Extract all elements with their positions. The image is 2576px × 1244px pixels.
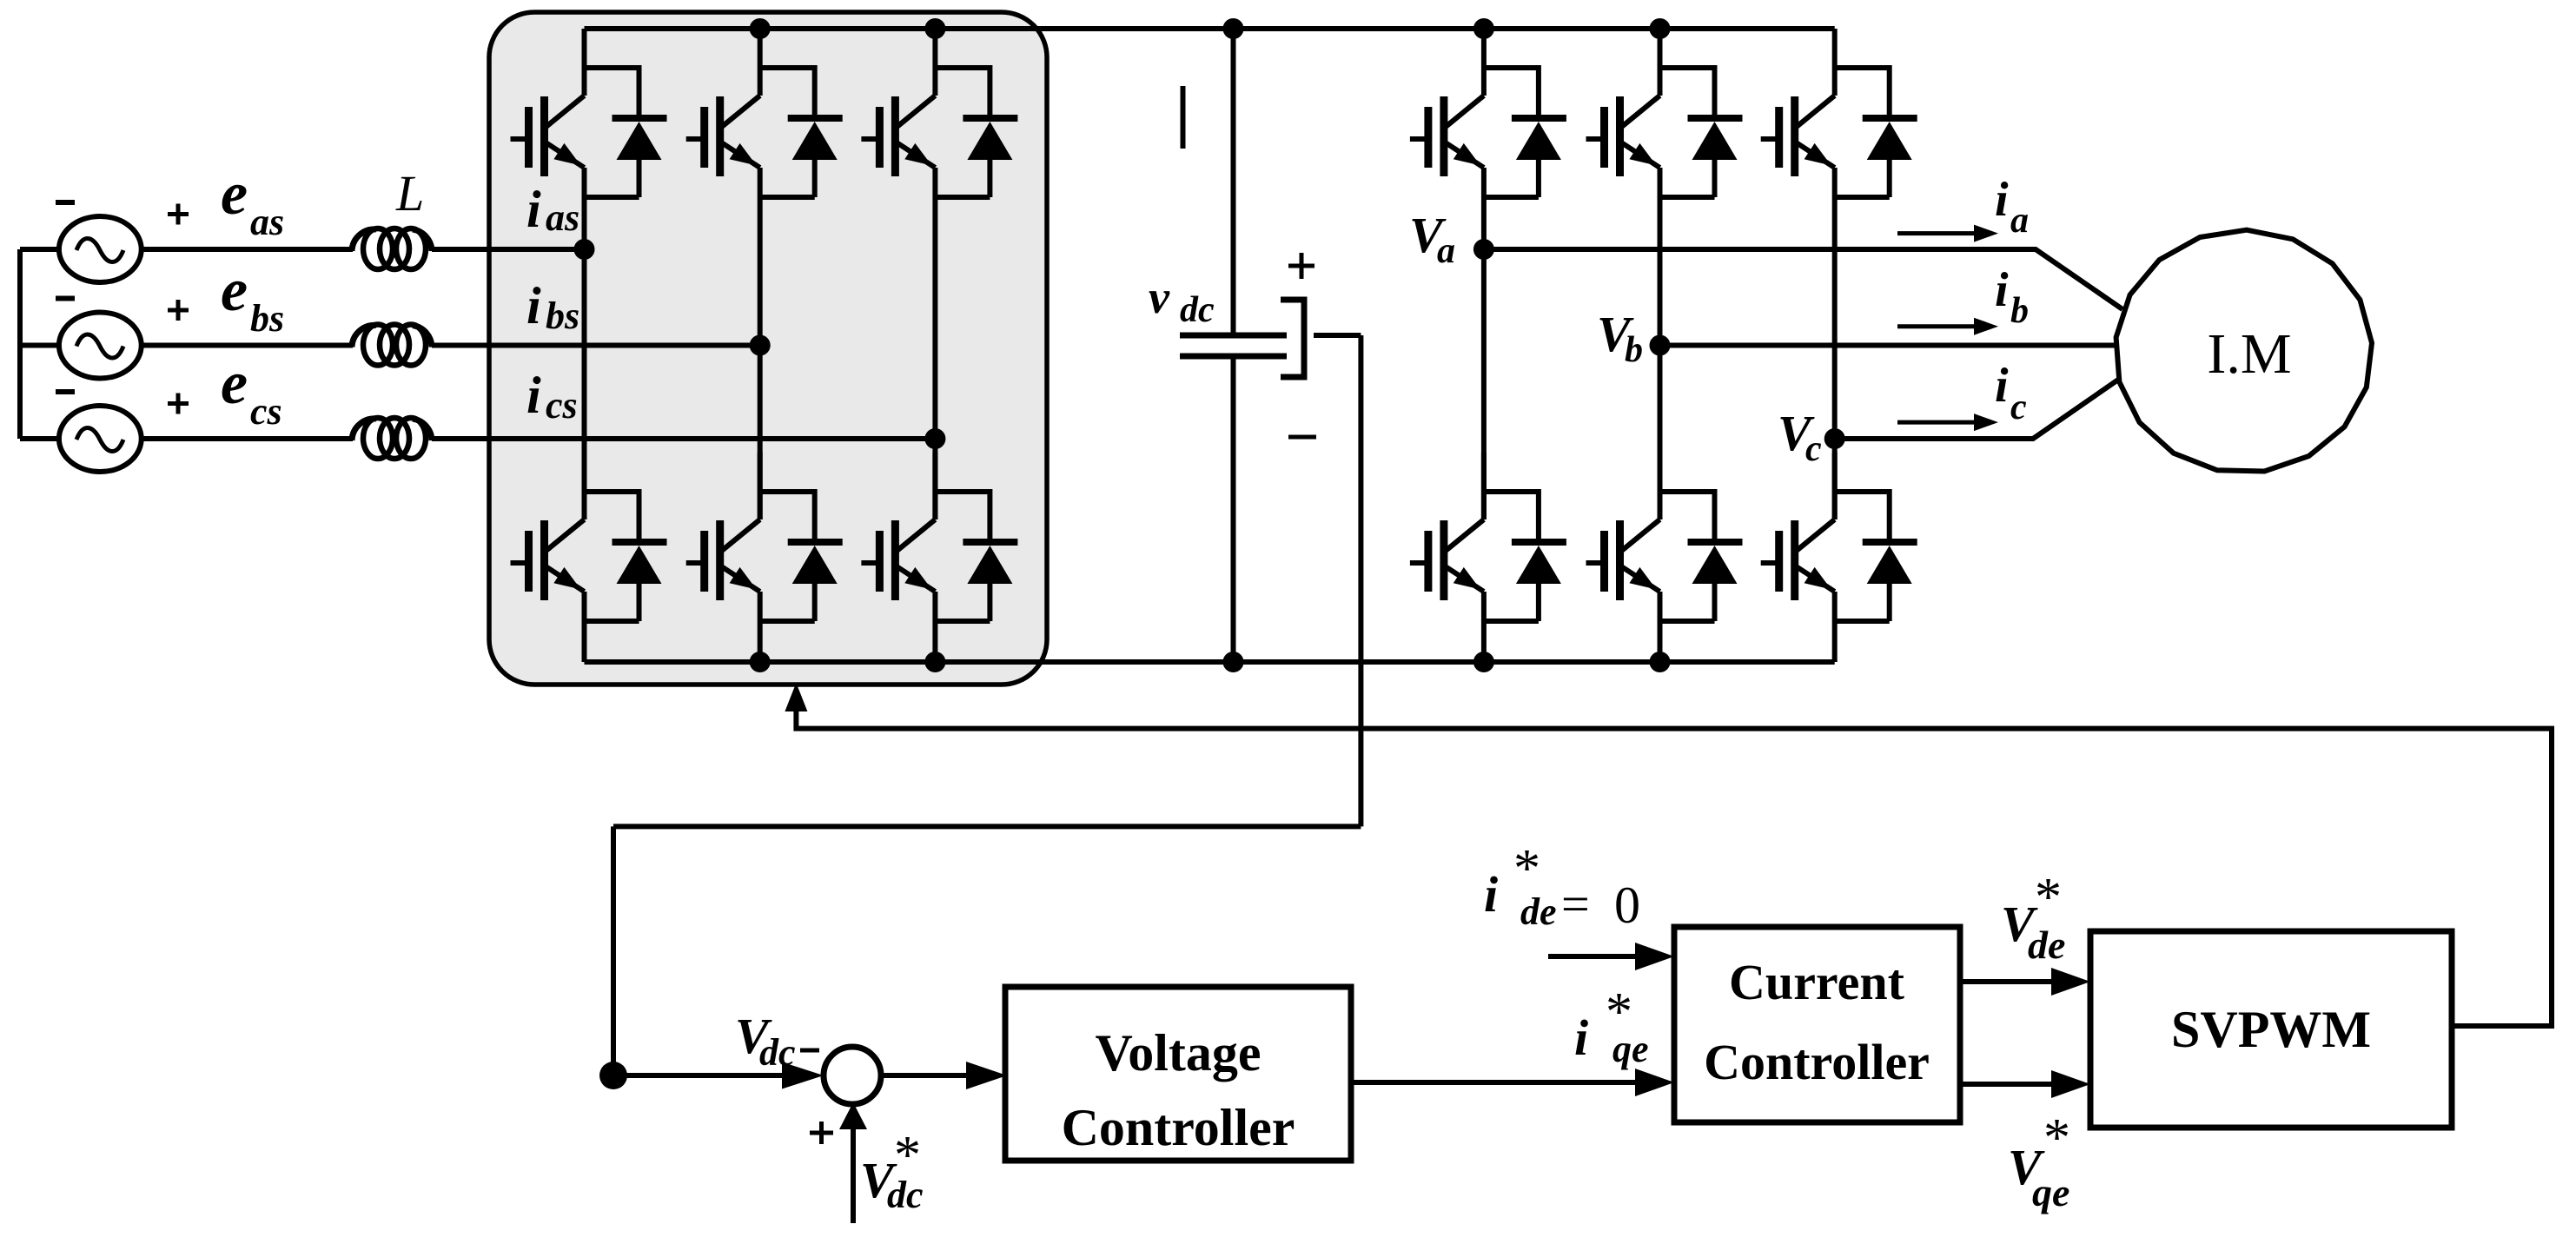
svg-text:=: = [1561,876,1590,932]
svg-text:a: a [1437,231,1455,271]
svg-text:i: i [526,181,541,238]
svg-text:0: 0 [1614,877,1640,934]
svg-text:i: i [526,277,541,334]
svg-text:*: * [2035,868,2062,927]
svg-text:as: as [546,196,579,239]
svg-text:*: * [1513,839,1540,898]
svg-text:v: v [1149,271,1170,323]
svg-text:b: b [1625,330,1643,370]
svg-text:i: i [1995,359,2009,413]
svg-text:cs: cs [250,390,282,433]
svg-text:SVPWM: SVPWM [2171,1001,2371,1058]
svg-text:de: de [1520,890,1557,933]
svg-text:as: as [250,201,284,243]
svg-text:bs: bs [546,294,579,337]
svg-text:dc: dc [1180,290,1215,330]
svg-text:dc: dc [759,1031,796,1074]
svg-text:Controller: Controller [1704,1034,1930,1090]
svg-text:i: i [1995,173,2009,227]
svg-text:cs: cs [546,384,578,427]
svg-text:a: a [2010,201,2029,241]
svg-text:de: de [2028,923,2065,967]
svg-text:*: * [2043,1108,2070,1168]
svg-text:qe: qe [1612,1028,1649,1070]
svg-text:i: i [1484,866,1498,923]
svg-text:dc: dc [887,1174,924,1216]
svg-text:Controller: Controller [1062,1099,1295,1156]
svg-text:L: L [395,165,424,222]
svg-text:i: i [1995,263,2009,317]
svg-text:e: e [221,257,248,324]
svg-text:i: i [1574,1009,1588,1066]
svg-text:Current: Current [1729,954,1905,1010]
svg-text:c: c [2010,387,2027,427]
svg-text:Voltage: Voltage [1095,1024,1261,1082]
svg-text:i: i [526,367,541,424]
svg-text:bs: bs [250,297,284,340]
svg-text:I.M: I.M [2207,322,2291,386]
svg-text:e: e [221,350,248,417]
svg-text:e: e [221,161,248,228]
svg-text:qe: qe [2032,1170,2069,1214]
svg-text:b: b [2010,291,2029,331]
svg-text:c: c [1805,429,1822,469]
